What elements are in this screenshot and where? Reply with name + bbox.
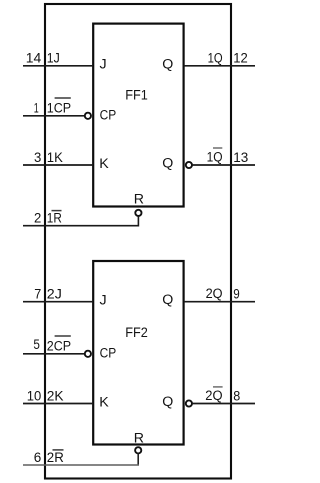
svg-text:2Q: 2Q [205, 388, 222, 404]
svg-text:Q: Q [162, 394, 173, 410]
svg-text:CP: CP [100, 345, 117, 361]
svg-text:1Q: 1Q [207, 150, 223, 166]
svg-text:10: 10 [27, 388, 42, 404]
svg-text:12: 12 [233, 51, 248, 67]
wire pin1 1CP input [23, 115, 85, 117]
wire pin8 2Qbar output [192, 403, 255, 405]
svg-text:J: J [100, 292, 107, 308]
svg-text:J: J [100, 56, 107, 72]
svg-text:2J: 2J [47, 287, 62, 303]
wire pin10 2K input [23, 403, 93, 405]
inversion bubble Qbar (FF2) [186, 400, 192, 406]
svg-text:2CP: 2CP [47, 339, 71, 355]
svg-text:R: R [134, 431, 144, 447]
wire pin7 2J input [23, 301, 93, 303]
svg-text:R: R [134, 191, 144, 207]
svg-text:7: 7 [34, 287, 41, 303]
inversion bubble R (FF2) [135, 447, 141, 453]
svg-text:3: 3 [34, 150, 41, 166]
inversion bubble CP (FF1) [85, 113, 91, 119]
inversion bubble R (FF1) [135, 210, 141, 216]
svg-text:FF1: FF1 [125, 88, 148, 104]
svg-text:2R: 2R [47, 450, 64, 466]
svg-text:2: 2 [34, 211, 41, 227]
svg-text:Q: Q [162, 56, 173, 72]
IC package boundary [45, 4, 231, 479]
svg-text:1Q: 1Q [208, 50, 223, 66]
svg-text:13: 13 [233, 150, 248, 166]
svg-text:14: 14 [26, 51, 42, 67]
svg-text:6: 6 [34, 450, 42, 466]
wire pin2 1R input [23, 216, 138, 226]
svg-text:8: 8 [233, 388, 240, 404]
svg-text:Q: Q [162, 292, 173, 308]
svg-text:1CP: 1CP [47, 101, 71, 117]
wire pin5 2CP input [23, 353, 85, 355]
svg-text:1J: 1J [47, 51, 60, 67]
svg-text:FF2: FF2 [125, 325, 148, 341]
svg-text:1K: 1K [47, 150, 63, 166]
inversion bubble CP (FF2) [85, 351, 91, 357]
flip-flop FF1 box [93, 24, 183, 207]
wire pin12 1Q output [184, 65, 255, 67]
svg-text:2K: 2K [47, 388, 64, 404]
svg-text:Q: Q [162, 156, 173, 172]
flip-flop FF2 box [93, 261, 183, 445]
wire pin9 2Q output [184, 301, 255, 303]
wire pin13 1Qbar output [192, 164, 255, 166]
svg-text:K: K [99, 156, 109, 172]
svg-text:1R: 1R [47, 211, 62, 227]
wire pin6 2R input [137, 454, 139, 466]
wire pin14 1J input [23, 65, 93, 67]
svg-text:K: K [99, 395, 109, 411]
svg-text:CP: CP [100, 107, 117, 123]
inversion bubble Qbar (FF1) [186, 162, 192, 168]
svg-text:9: 9 [233, 287, 240, 303]
svg-text:1: 1 [34, 101, 39, 117]
wire pin3 1K input [23, 164, 93, 166]
svg-text:2Q: 2Q [206, 286, 223, 302]
svg-text:5: 5 [33, 337, 40, 353]
